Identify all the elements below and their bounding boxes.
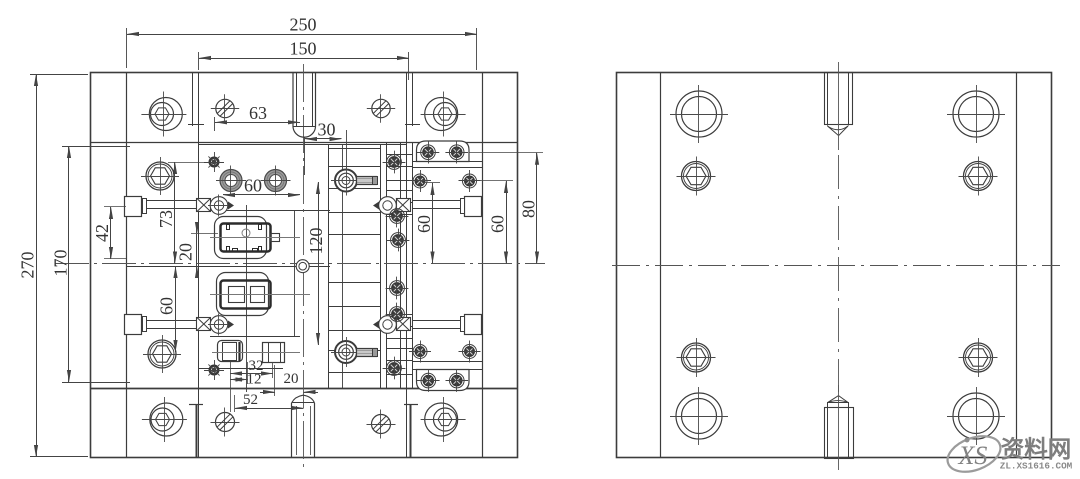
right view right inner line [1016, 73, 1018, 458]
lower diamond tip left [228, 321, 234, 329]
left wing inner edge line [126, 73, 128, 458]
runner channel vertical x294 [294, 211, 296, 336]
right counterbore hole bottom-left [676, 393, 722, 439]
horizontal line y336 [210, 336, 300, 338]
ejector guide pin left [189, 404, 203, 406]
dimension 60 left lower [175, 266, 177, 352]
wedge vertical x400 [400, 142, 402, 388]
water fitting left [220, 170, 242, 192]
dimension 80 [469, 152, 543, 154]
horizontal line y266 [127, 266, 330, 268]
cavity upper centerline [210, 237, 300, 239]
upper guide row side lock block left [125, 197, 142, 217]
cavity product upper stub [271, 234, 280, 242]
core block left [218, 341, 243, 362]
lower side lock block right [465, 315, 482, 335]
water fitting right [265, 170, 287, 192]
lower guide bar left [147, 320, 198, 322]
dimension 170 [62, 146, 130, 148]
horizontal line y145 [199, 144, 406, 146]
latch bracket bottom-right [417, 370, 470, 391]
ejector guide pin right [404, 404, 418, 406]
dimension 32 [230, 362, 232, 412]
horizontal line y211 [199, 210, 330, 212]
upper side lock block right [465, 197, 482, 217]
upper crossed box right [397, 199, 411, 212]
upper ring circle right [379, 197, 397, 215]
cavity product upper bold [221, 224, 271, 252]
plate vertical line x412 top [412, 73, 414, 126]
svg-text:52: 52 [243, 392, 258, 408]
left view outer plate [91, 73, 518, 458]
screw with slot bottom-left [216, 413, 235, 432]
right hex screw bottom-left [682, 343, 711, 372]
upper diamond tip left [228, 202, 234, 210]
counterbore screw bottom-right [425, 403, 458, 436]
lower ring circle right [379, 316, 397, 334]
lower guide row side lock block left [125, 315, 142, 335]
svg-text:170: 170 [51, 250, 71, 277]
cavity upper notch marks [227, 225, 230, 230]
svg-text:20: 20 [176, 243, 196, 261]
dimension 270 [30, 74, 88, 76]
plate vertical line x412 middle [412, 142, 414, 388]
cavity insert lower outer [217, 273, 269, 316]
svg-text:12: 12 [247, 372, 262, 388]
wedge vertical x387 [386, 142, 388, 388]
svg-text:120: 120 [306, 228, 326, 255]
dimension 60 right [471, 180, 513, 182]
dimension 52 [234, 395, 236, 412]
dowel pin d [463, 345, 477, 359]
ladder rungs [328, 148, 381, 150]
horizontal parting line y142 [90, 142, 517, 144]
cavity upper small circle [242, 229, 250, 237]
right view outer plate [617, 73, 1052, 458]
small ring on axis near center [296, 260, 309, 273]
core block right spool [263, 343, 285, 363]
right wing inner edge line [482, 73, 484, 458]
svg-text:42: 42 [92, 224, 112, 242]
upper ring circle left [210, 197, 228, 215]
right view bottom plug [825, 408, 854, 459]
counterbore screw top-left [149, 98, 182, 131]
dimension 60 top [223, 194, 300, 196]
screw with slot top-left [216, 99, 234, 117]
dimension 120 [318, 182, 320, 345]
dimension 20 lower [274, 365, 276, 396]
centerline vertical left view [303, 64, 305, 470]
latch screw 4 [450, 373, 465, 388]
cavity lower centerline [210, 294, 310, 296]
cavity axis vertical x247 [246, 205, 248, 392]
horizontal line y368 [199, 368, 283, 370]
svg-text:73: 73 [156, 210, 176, 228]
centerline horizontal left view [55, 263, 545, 265]
dimension 150 [198, 52, 200, 70]
upper diamond tip right [373, 202, 379, 210]
upper guide row right bar [412, 200, 460, 202]
cooling nipple screw upper-left [209, 157, 219, 167]
ejector housing line y388 [90, 388, 517, 390]
upper slide core pin [335, 170, 357, 192]
plate vertical line x193 top [192, 73, 194, 126]
counterbore screw bottom-left [150, 403, 183, 436]
right counterbore hole top-left [676, 91, 722, 137]
counterbore screw top-right [425, 98, 458, 131]
right view top plug [825, 73, 853, 125]
cavity lower square right [251, 287, 265, 303]
upper crossed box left [197, 199, 211, 212]
sprue puller rod [291, 403, 293, 458]
dimension 63 [214, 117, 216, 131]
svg-text:250: 250 [290, 15, 317, 35]
svg-text:63: 63 [249, 103, 267, 123]
dowel pin a [413, 174, 427, 188]
ejector screws on ladder [387, 155, 402, 170]
svg-text:150: 150 [290, 39, 317, 59]
cavity lower square left [229, 287, 245, 303]
right view left inner line [660, 73, 662, 458]
right counterbore hole top-right [953, 91, 999, 137]
core row centerline [212, 352, 300, 354]
right view horizontal centerline [612, 265, 1060, 267]
ladder vertical x381 [380, 145, 382, 388]
svg-text:60: 60 [488, 215, 508, 233]
latch screw 1 [421, 145, 436, 160]
cavity insert upper outer [215, 217, 267, 259]
lower guide row right bar [412, 320, 460, 322]
dimension 30 [346, 130, 348, 175]
dowel pin b [463, 174, 477, 188]
dimension 12 [247, 362, 249, 384]
latch screw 2 [449, 145, 464, 160]
lower crossed box right [397, 318, 411, 331]
dimension 60 middle-right [424, 182, 440, 184]
right hex screw top-left [682, 162, 711, 191]
dimension 20 vertical [191, 233, 218, 235]
svg-text:80: 80 [519, 200, 539, 218]
ladder vertical x342 [342, 145, 344, 388]
plate vertical line x406 [406, 73, 408, 458]
svg-text:60: 60 [244, 176, 262, 196]
lower crossed box left [197, 318, 211, 331]
dowel pin c [413, 345, 427, 359]
svg-text:XS: XS [958, 441, 988, 470]
svg-text:270: 270 [18, 252, 38, 279]
upper guide bar left [147, 200, 198, 202]
right view vertical centerline [838, 155, 840, 392]
svg-text:30: 30 [318, 120, 336, 140]
svg-text:60: 60 [157, 297, 177, 315]
dimension 42 [104, 206, 126, 208]
plate vertical line x199 [198, 73, 200, 458]
watermark ellipse [943, 430, 1006, 479]
svg-text:60: 60 [414, 215, 434, 233]
small screw lower-left of core [209, 365, 219, 375]
ladder vertical x328 [328, 145, 330, 388]
latch bracket top-right [417, 141, 470, 162]
cavity product lower bold [221, 281, 271, 309]
right hex screw bottom-right [964, 343, 993, 372]
screw with slot top-right [372, 99, 390, 117]
sprue bushing [293, 73, 316, 137]
lower diamond tip right [373, 321, 379, 329]
left hex screw upper [146, 162, 174, 190]
svg-text:ZL.XS1616.COM: ZL.XS1616.COM [1000, 461, 1073, 472]
latch screw 3 [421, 373, 436, 388]
lower slide core pin [335, 341, 357, 363]
left hex screw lower [148, 340, 176, 368]
dimension 73 [168, 162, 210, 164]
right hex screw top-right [964, 162, 993, 191]
lower ring circle left [210, 316, 228, 334]
screw with slot bottom-right [372, 415, 391, 434]
wedge strip cell lines [387, 154, 412, 156]
svg-text:资料网: 资料网 [1001, 436, 1072, 462]
svg-text:20: 20 [284, 371, 299, 387]
right counterbore hole bottom-right [953, 393, 999, 439]
dimension 250 [126, 28, 128, 68]
